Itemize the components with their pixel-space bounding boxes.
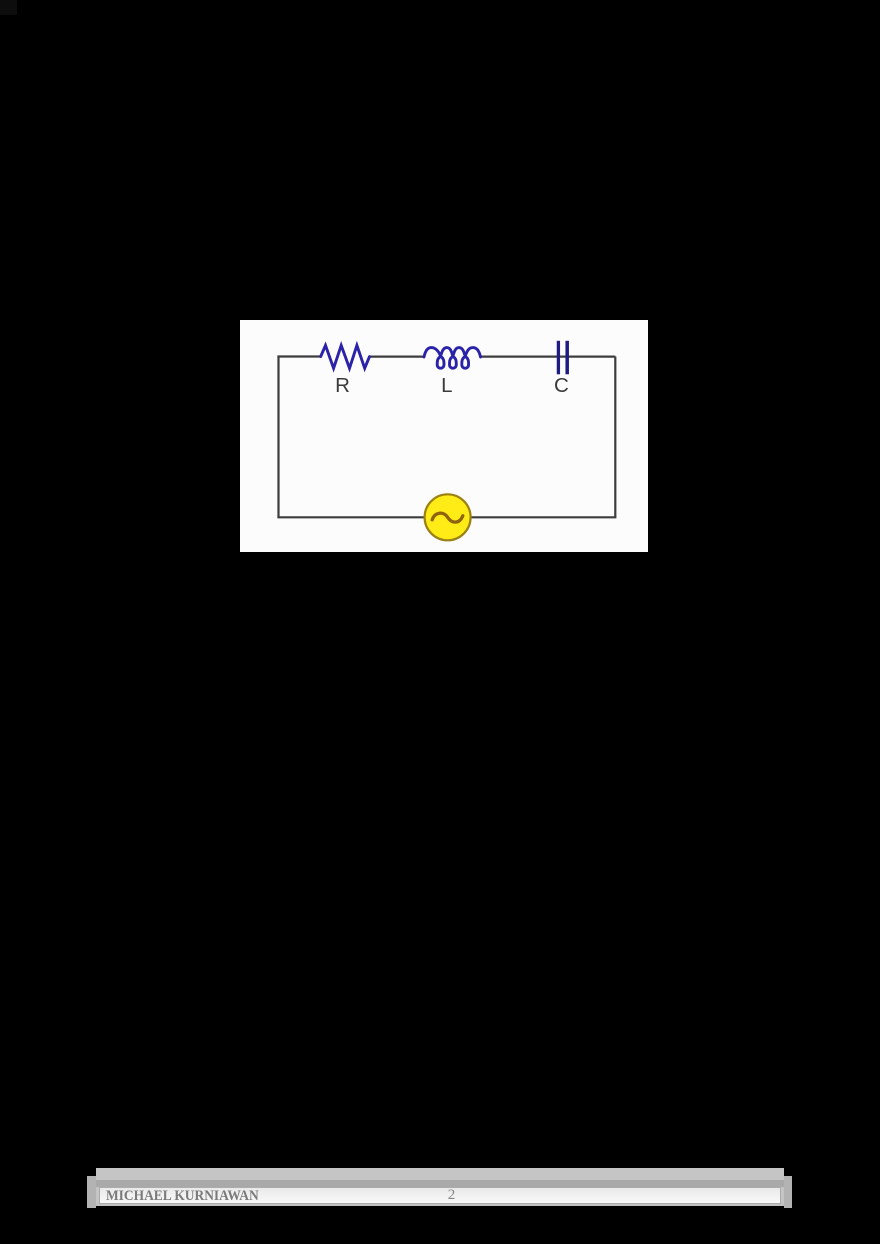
wire: top segment C (inductor to right corner, through capacitor) <box>481 356 616 358</box>
band darker <box>96 1180 784 1187</box>
label R <box>323 376 363 397</box>
AC source tilde <box>432 513 463 522</box>
footer page number 2 <box>448 1188 456 1203</box>
wire: right vertical <box>614 357 616 518</box>
label L <box>427 376 467 397</box>
footer name text <box>106 1188 259 1203</box>
white strip <box>99 1187 781 1204</box>
wire: top segment B (resistor to inductor) <box>369 356 424 358</box>
circuit schematic svg <box>240 320 648 552</box>
footer right tab <box>784 1176 792 1208</box>
white figure panel <box>240 320 648 552</box>
wire: left vertical <box>277 357 279 518</box>
bottom edge <box>96 1203 784 1206</box>
label C <box>541 376 581 397</box>
footer left tab <box>87 1176 96 1208</box>
footer main bar <box>96 1168 784 1206</box>
capacitor C plate left <box>557 341 560 375</box>
faint top-left square <box>0 0 17 15</box>
resistor R zigzag <box>321 345 370 368</box>
capacitor C plate right <box>565 341 569 375</box>
wire: top segment A (left corner to resistor) <box>277 355 321 357</box>
inductor L coil <box>424 348 481 369</box>
AC source circle <box>425 494 471 540</box>
wire: bottom <box>277 516 616 518</box>
